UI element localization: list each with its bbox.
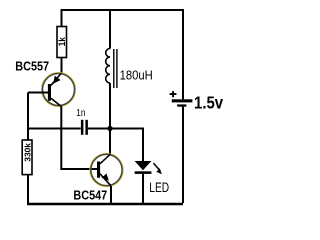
svg-text:LED: LED xyxy=(149,179,169,195)
svg-text:BC547: BC547 xyxy=(73,188,107,203)
svg-text:1k: 1k xyxy=(56,37,67,46)
svg-text:BC557: BC557 xyxy=(15,59,49,74)
svg-text:180uH: 180uH xyxy=(120,68,153,83)
svg-text:1.5v: 1.5v xyxy=(194,94,224,113)
svg-text:330k: 330k xyxy=(23,143,33,162)
svg-text:1n: 1n xyxy=(76,106,85,118)
